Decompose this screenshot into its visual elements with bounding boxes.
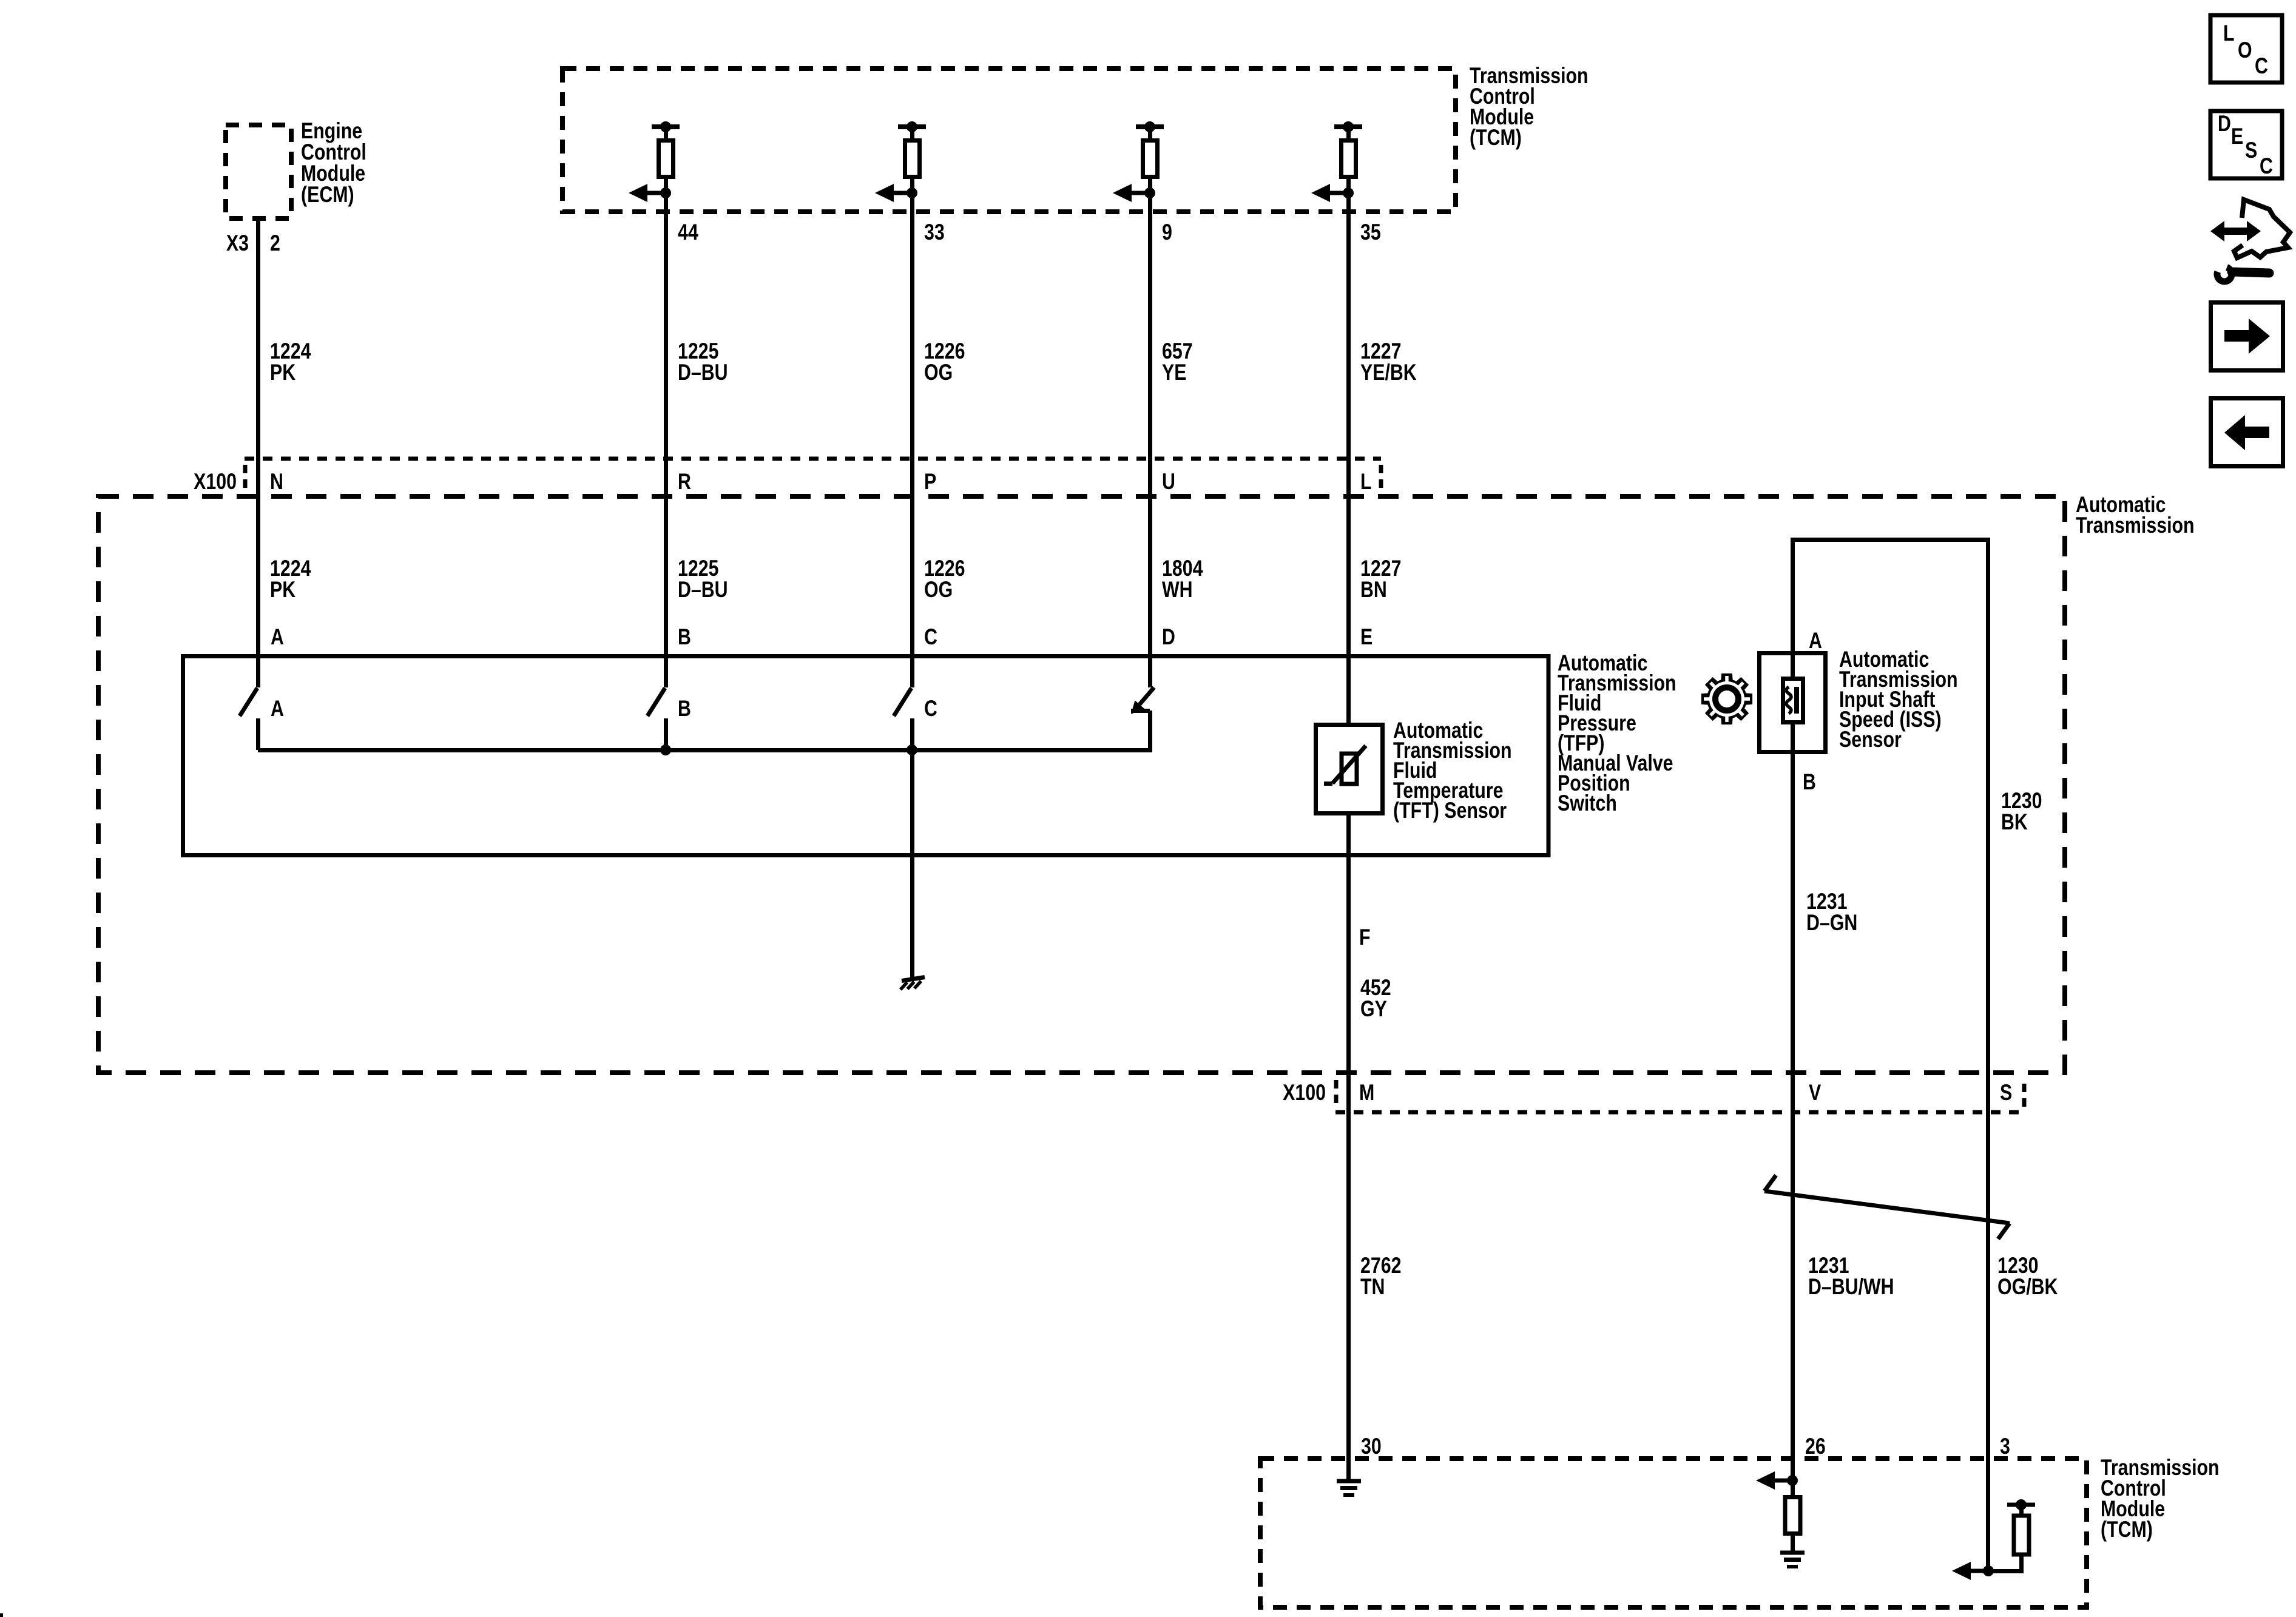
icon arrow right box [2211, 303, 2283, 371]
TFT sensor label [1393, 718, 1512, 823]
svg-text:BK: BK [2001, 809, 2028, 835]
connector X3 label [226, 231, 249, 256]
terminal A label ISS [1809, 628, 1822, 653]
ECM label [301, 118, 366, 208]
switch A label [271, 696, 284, 721]
ground earth pin 26 [1780, 1553, 1805, 1567]
svg-text:X100: X100 [194, 469, 237, 495]
svg-text:9: 9 [1162, 220, 1172, 245]
TCM pin 26 arrow [1756, 1471, 1792, 1490]
icon arrow left box [2211, 399, 2283, 467]
svg-text:R: R [678, 469, 691, 495]
TCM pin 26 junction [1787, 1475, 1798, 1486]
Automatic Transmission label [2076, 492, 2195, 538]
TCM pin 44 resistor R1 [629, 121, 680, 202]
pin 9 label [1162, 220, 1172, 245]
wire 1227 YE/BK - BN - 452 GY - 2762 TN (TCM pin35 to TCM pin30 ground) [1346, 177, 1351, 1480]
TCM bottom module box [1260, 1459, 2087, 1607]
wire C to ground [910, 750, 914, 978]
svg-text:GY: GY [1360, 996, 1387, 1022]
svg-text:OG: OG [924, 577, 953, 603]
wire label 657 YE [1162, 339, 1193, 385]
svg-text:BN: BN [1360, 577, 1387, 603]
pin L label [1360, 469, 1372, 495]
TCM top label [1470, 63, 1589, 150]
svg-text:(ECM): (ECM) [301, 182, 354, 208]
wire label 1231 D-BU/WH [1808, 1253, 1894, 1300]
wire label 1225 D-BU lower [678, 556, 728, 603]
wire label 1231 D-GN [1806, 889, 1857, 936]
wire label 1227 BN [1360, 556, 1401, 603]
connector X100 bottom line [1335, 1080, 2024, 1112]
connector X100 top label [194, 469, 237, 495]
wire label 1226 OG lower [924, 556, 965, 603]
svg-text:U: U [1162, 469, 1175, 495]
wire label 2762 TN [1360, 1253, 1401, 1300]
TCM pin 3 junction [1983, 1565, 1994, 1576]
icon DESC box [2210, 111, 2282, 179]
svg-text:O: O [2238, 38, 2252, 63]
svg-text:A: A [271, 624, 284, 650]
ISS sensor label [1839, 647, 1958, 752]
svg-text:L: L [1360, 469, 1372, 495]
svg-text:YE: YE [1162, 360, 1186, 385]
TCM pin 3 arrow [1952, 1562, 1988, 1580]
Automatic Transmission box [98, 496, 2065, 1073]
wire label 1224 PK upper [270, 339, 311, 385]
svg-text:S: S [2245, 138, 2257, 163]
svg-text:TN: TN [1360, 1274, 1385, 1300]
svg-text:E: E [2231, 124, 2243, 149]
switch C [894, 688, 913, 750]
thermistor TFT [1324, 746, 1366, 784]
ECM module box [226, 125, 291, 218]
svg-text:(TCM): (TCM) [2101, 1517, 2153, 1542]
svg-text:OG: OG [924, 360, 953, 385]
svg-text:X100: X100 [1283, 1080, 1326, 1106]
svg-text:S: S [2000, 1080, 2012, 1106]
svg-text:C: C [2255, 53, 2268, 79]
terminal C label [924, 624, 937, 650]
TCM pin 35 resistor R4 [1311, 121, 1362, 202]
wire 1225 D-BU (TCM pin44 to switch B) [664, 177, 668, 687]
TCM bottom label [2101, 1455, 2220, 1542]
gear icon [1701, 673, 1752, 724]
wire ISS loop top [1793, 538, 1988, 1571]
svg-text:B: B [1803, 769, 1816, 795]
ISS sensor box [1760, 653, 1826, 752]
pin M label [1359, 1080, 1374, 1106]
svg-text:30: 30 [1361, 1434, 1382, 1459]
pin 3 label [2000, 1434, 2010, 1459]
svg-text:C: C [924, 624, 937, 650]
pin 44 label [678, 220, 698, 245]
svg-text:PK: PK [270, 360, 296, 385]
terminal E label [1360, 624, 1373, 650]
svg-text:Sensor: Sensor [1839, 727, 1902, 752]
wire label 1227 YE/BK [1360, 339, 1417, 385]
svg-text:V: V [1809, 1080, 1822, 1106]
ground earth pin 30 [1337, 1481, 1361, 1495]
connector X100 bottom label [1283, 1080, 1326, 1106]
connector X100 top line [245, 459, 1381, 494]
svg-text:F: F [1359, 925, 1371, 950]
svg-text:33: 33 [924, 220, 945, 245]
icon double arrow with part outline [2210, 200, 2290, 258]
terminal D label [1162, 624, 1175, 650]
terminal A label [271, 624, 284, 650]
svg-text:44: 44 [678, 220, 698, 245]
TFT sensor box [1316, 725, 1383, 814]
svg-text:Transmission: Transmission [2076, 513, 2195, 538]
svg-text:D–BU/WH: D–BU/WH [1808, 1274, 1894, 1300]
pin 30 label [1361, 1434, 1382, 1459]
wire label 1230 BK [2001, 788, 2042, 835]
ground chassis under switch C [900, 977, 925, 990]
svg-text:35: 35 [1360, 220, 1381, 245]
svg-text:C: C [2260, 154, 2273, 179]
svg-text:D–BU: D–BU [678, 577, 728, 603]
svg-text:26: 26 [1805, 1434, 1826, 1459]
svg-text:(TFT) Sensor: (TFT) Sensor [1393, 798, 1507, 823]
svg-text:X3: X3 [226, 231, 249, 256]
svg-text:N: N [270, 469, 283, 495]
svg-text:C: C [924, 696, 937, 721]
svg-text:E: E [1360, 624, 1373, 650]
svg-text:3: 3 [2000, 1434, 2010, 1459]
TCM pin 33 resistor R2 [875, 121, 926, 202]
junction node at C [907, 744, 917, 755]
svg-text:YE/BK: YE/BK [1360, 360, 1417, 385]
pin R label [678, 469, 691, 495]
wire 1224 PK (ECM pin2 to switch A) [256, 218, 260, 687]
svg-text:Switch: Switch [1558, 791, 1617, 816]
wire label 1226 OG upper [924, 339, 965, 385]
TCM pin 3 resistor R6 [1988, 1499, 2035, 1571]
switch A [240, 688, 258, 750]
page artifact dot bottom-left [0, 1613, 3, 1617]
icon LOC box [2210, 15, 2282, 83]
svg-text:D: D [2218, 111, 2231, 137]
svg-text:L: L [2223, 21, 2235, 46]
svg-text:(TCM): (TCM) [1470, 125, 1522, 150]
svg-text:A: A [1809, 628, 1822, 653]
svg-text:D–GN: D–GN [1806, 910, 1857, 936]
svg-text:M: M [1359, 1080, 1374, 1106]
svg-text:B: B [678, 696, 691, 721]
pin 35 label [1360, 220, 1381, 245]
ISS pickup element [1783, 679, 1803, 723]
pin N label [270, 469, 283, 495]
wire 657 YE / 1804 WH (TCM pin9 to switch D) [1148, 177, 1152, 687]
svg-text:WH: WH [1162, 577, 1193, 603]
terminal F label [1359, 925, 1371, 950]
terminal B label [678, 624, 691, 650]
TFP manual valve position switch box [183, 657, 1549, 856]
wire switch common bus [258, 748, 1152, 752]
wire label 1230 OG/BK [1997, 1253, 2058, 1300]
junction node at B [660, 744, 671, 755]
svg-text:D: D [1162, 624, 1175, 650]
svg-text:B: B [678, 624, 691, 650]
wire label 1804 WH [1162, 556, 1203, 603]
svg-text:A: A [271, 696, 284, 721]
wire 1226 OG (TCM pin33 to switch C) [910, 177, 914, 687]
icon wrench [2217, 268, 2269, 282]
svg-text:P: P [924, 469, 936, 495]
pin U label [1162, 469, 1175, 495]
pin S label [2000, 1080, 2012, 1106]
TCM pin 9 resistor R3 [1113, 121, 1164, 202]
switch D [1131, 687, 1154, 750]
TFP switch label [1558, 650, 1676, 816]
svg-text:D–BU: D–BU [678, 360, 728, 385]
wire label 1224 PK lower [270, 556, 311, 603]
wire crossover symbol [1764, 1175, 2010, 1239]
TCM pin 26 resistor R5 [1785, 1480, 1800, 1551]
pin P label [924, 469, 936, 495]
pin 33 label [924, 220, 945, 245]
pin V label [1809, 1080, 1822, 1106]
switch B label [678, 696, 691, 721]
svg-text:2: 2 [270, 231, 280, 256]
wire label 452 GY [1360, 975, 1391, 1022]
switch C label [924, 696, 937, 721]
TCM top module box [562, 69, 1456, 212]
wire label 1225 D-BU upper [678, 339, 728, 385]
switch B [647, 688, 666, 750]
pin 26 label [1805, 1434, 1826, 1459]
pin 2 label [270, 231, 280, 256]
svg-text:OG/BK: OG/BK [1997, 1274, 2058, 1300]
svg-text:PK: PK [270, 577, 296, 603]
terminal B label ISS [1803, 769, 1816, 795]
